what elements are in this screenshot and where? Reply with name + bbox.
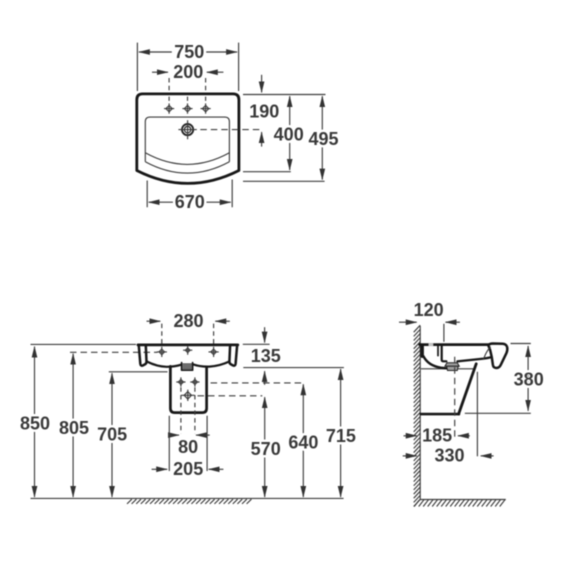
siphon cover bottom (side) <box>421 413 459 416</box>
dimension 705 line <box>111 373 113 425</box>
tap hole 1 (plan) <box>164 97 174 114</box>
drain flange upper (side) <box>445 363 459 367</box>
basin underside right (front) <box>193 362 230 367</box>
drain boss threads <box>183 364 192 369</box>
reference dashed line 805 (tap hole level) <box>70 351 158 353</box>
dimension 640 line <box>302 384 304 434</box>
svg-text:380: 380 <box>514 370 544 390</box>
rim back web left edge <box>437 346 439 356</box>
cover bolt hole left <box>176 377 185 386</box>
svg-text:715: 715 <box>326 426 356 446</box>
rim back web right edge <box>442 346 447 362</box>
basin underside left (front) <box>147 362 181 367</box>
tap hole right (front) <box>209 347 219 357</box>
faucet crosshair <box>178 120 196 139</box>
rim top line (side) <box>420 343 489 346</box>
front roll inner line (side) <box>483 347 491 359</box>
dimension 670 extension lines <box>147 180 232 208</box>
dimension 280 extension dashes <box>162 324 214 347</box>
dimension 135 arrows <box>264 327 266 342</box>
reference line 850 (top rim level) <box>31 343 137 345</box>
dimension 330 extension line <box>476 372 478 457</box>
dimension 280 arrows <box>147 320 161 322</box>
extension line 495 (plan) <box>243 180 325 182</box>
bolt hole extension dashes <box>181 387 195 433</box>
left rim end (front) <box>139 346 147 366</box>
front roll outer (side) <box>488 344 507 369</box>
tap hole 3 (plan) <box>201 97 211 114</box>
reference line 135/715 <box>243 367 344 369</box>
tap hole 2 (plan) <box>182 97 192 114</box>
dimension 380 top extension <box>511 343 531 345</box>
svg-text:640: 640 <box>288 433 318 453</box>
tap hole section notch <box>429 343 434 346</box>
svg-text:330: 330 <box>434 446 464 466</box>
basin underside line (side) <box>421 368 474 370</box>
svg-text:400: 400 <box>274 125 304 145</box>
basin inner deck outline (plan) <box>145 117 229 162</box>
drain flange lower (side) <box>447 366 459 370</box>
dimension 80 arrows <box>169 434 180 436</box>
dimension 750 extension lines <box>137 43 238 91</box>
basin top edge (front) <box>138 343 238 346</box>
reference dashed line 570 <box>198 395 263 397</box>
dimension 205 extension lines <box>169 416 207 471</box>
basin outer outline (plan) <box>137 94 239 183</box>
dimension 750 arrows <box>139 51 172 53</box>
dimension 185 arrows <box>404 435 417 437</box>
dimension 715 line <box>340 369 342 428</box>
svg-text:185: 185 <box>422 426 452 446</box>
cover bolt hole right <box>190 377 199 386</box>
drain boss (front) <box>182 363 193 371</box>
basin shell underside left (side) <box>423 356 446 368</box>
faucet centre dashed line <box>200 129 263 131</box>
siphon cover front slant (side) <box>459 364 477 414</box>
tap hole middle (front) <box>183 346 192 355</box>
svg-text:200: 200 <box>173 62 203 82</box>
dimension 495 line <box>321 96 323 138</box>
svg-text:670: 670 <box>175 192 205 212</box>
extension line 400 (plan) <box>243 171 291 173</box>
extension line top edge (plan) <box>243 94 326 96</box>
drain centre dashed line (side) <box>454 357 456 439</box>
right rim end (front) <box>229 346 237 366</box>
svg-text:805: 805 <box>59 418 89 438</box>
faucet hole inner circle <box>184 126 190 132</box>
dimension 330 arrows <box>403 455 417 457</box>
svg-text:750: 750 <box>174 42 204 62</box>
svg-text:705: 705 <box>97 424 127 444</box>
svg-text:850: 850 <box>20 414 50 434</box>
floor hatching (side) <box>414 500 505 507</box>
svg-text:135: 135 <box>251 346 281 366</box>
dimension 200 extension dashes <box>169 78 206 92</box>
dimension 570 line <box>264 397 266 440</box>
floor hatching (front) <box>127 499 251 504</box>
dimension 120 arrows <box>399 321 417 323</box>
svg-text:80: 80 <box>178 437 198 457</box>
dimension 400 line <box>289 96 291 133</box>
svg-text:205: 205 <box>173 459 203 479</box>
floor line (side) <box>420 499 506 501</box>
faucet hole outer circle <box>182 124 193 135</box>
basin shell line to front roll (side) <box>457 357 490 361</box>
dimension 200 arrows <box>152 71 168 73</box>
reference dashed line 640 <box>211 382 303 384</box>
front deck arc <box>145 162 229 173</box>
dimension 135 top reference line <box>243 343 270 345</box>
dimension 190 arrows <box>261 75 263 93</box>
dimension 380 bottom extension <box>465 412 531 414</box>
wall hatching <box>414 325 421 506</box>
svg-text:495: 495 <box>308 129 338 149</box>
svg-text:120: 120 <box>414 300 444 320</box>
svg-text:190: 190 <box>249 101 279 121</box>
reference line 705 (basin underside level) <box>109 371 168 373</box>
inner bowl front arc <box>145 153 229 165</box>
dimension 205 arrows <box>152 468 168 470</box>
svg-text:280: 280 <box>173 311 203 331</box>
svg-text:570: 570 <box>251 439 281 459</box>
dimension 120 extension line <box>443 324 445 342</box>
dimension 805 line <box>72 354 74 420</box>
dimension 670 line <box>149 201 183 203</box>
wall line <box>419 326 421 500</box>
tap hole left (front) <box>157 347 167 357</box>
back mounting section <box>421 346 424 356</box>
cover drain hole <box>181 390 194 401</box>
floor line (front) <box>31 497 344 499</box>
dimension 380 line <box>527 346 529 375</box>
siphon cover (front) <box>170 366 206 412</box>
dimension 850 line <box>34 347 36 415</box>
